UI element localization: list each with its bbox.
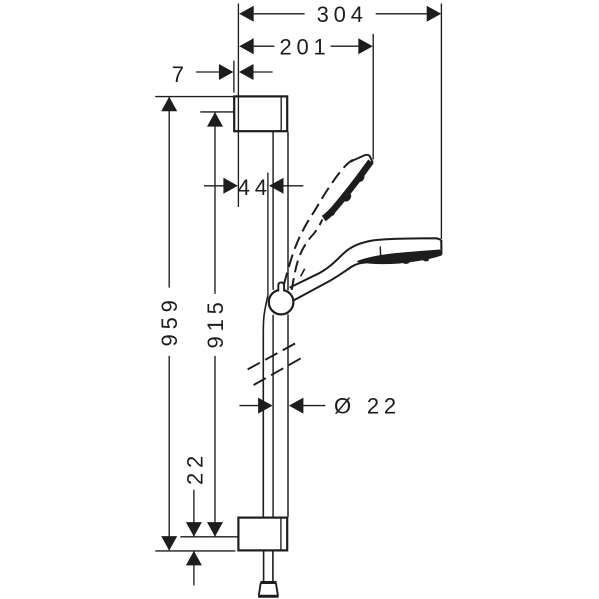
dim 304 line xyxy=(239,6,441,22)
phantom handle lower edge A xyxy=(248,343,296,369)
bottom wall bracket xyxy=(238,518,287,551)
hose curve xyxy=(263,296,268,517)
phantom handshower right dashed curve xyxy=(292,220,323,291)
dim 22 vertical line xyxy=(186,490,202,586)
slide bar right edge xyxy=(287,132,289,517)
svg-text:22: 22 xyxy=(182,451,207,485)
handshower spray band xyxy=(378,260,384,263)
dim 201 line xyxy=(239,38,373,54)
handshower handle upper edge and head top xyxy=(290,238,441,287)
svg-text:44: 44 xyxy=(238,175,272,200)
svg-text:7: 7 xyxy=(172,62,189,87)
extension line top bracket center xyxy=(200,111,233,113)
handshower handle lower edge xyxy=(294,262,367,300)
handle tick mark xyxy=(301,269,305,277)
head needle mark xyxy=(379,247,382,259)
extension line bottom bracket center xyxy=(180,536,238,538)
svg-text:915: 915 xyxy=(203,297,228,348)
dim 44 line xyxy=(204,173,303,297)
phantom handshower left dashed curve xyxy=(284,160,353,285)
svg-text:201: 201 xyxy=(279,34,330,59)
phantom head spray band xyxy=(342,192,353,203)
extension line top bracket top xyxy=(155,96,233,98)
handshower head right edge xyxy=(440,240,442,255)
extension line bottom bracket bottom xyxy=(155,550,235,552)
dim 7 lines xyxy=(196,4,273,208)
dim 959 line xyxy=(161,97,177,551)
extension line 201 xyxy=(372,34,374,160)
svg-text:304: 304 xyxy=(317,2,368,27)
svg-text:959: 959 xyxy=(157,295,182,346)
holder circle xyxy=(269,290,294,315)
dim 915 line xyxy=(207,112,223,536)
extension line 304 xyxy=(440,4,442,240)
hose below bottom bracket xyxy=(264,551,273,582)
svg-text:Ø 22: Ø 22 xyxy=(334,394,401,419)
top wall bracket xyxy=(234,96,287,131)
phantom head cap xyxy=(351,155,373,163)
hose end nut xyxy=(258,583,279,597)
dim dia22 line xyxy=(239,398,325,414)
holder knob xyxy=(278,282,284,291)
slide bar left edge xyxy=(272,132,274,517)
phantom handle lower edge B xyxy=(254,356,305,385)
